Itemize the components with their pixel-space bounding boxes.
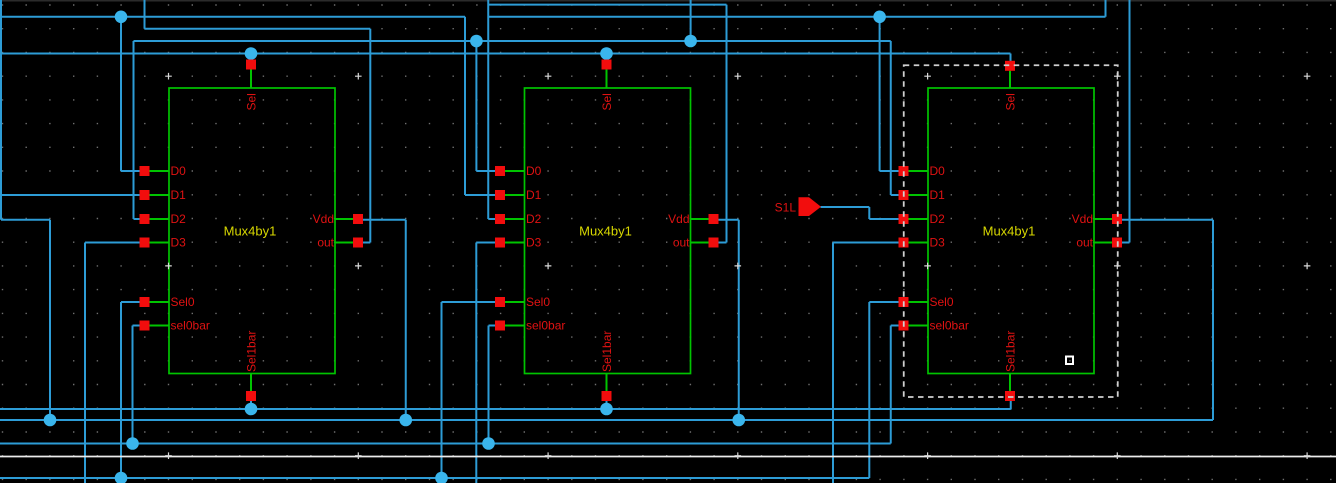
svg-text:Sel: Sel — [600, 93, 614, 110]
svg-text:out: out — [317, 236, 334, 250]
svg-text:D2: D2 — [930, 212, 946, 226]
svg-text:sel0bar: sel0bar — [930, 319, 969, 333]
svg-text:Mux4by1: Mux4by1 — [224, 224, 277, 239]
svg-text:D0: D0 — [526, 164, 542, 178]
svg-text:Sel0: Sel0 — [171, 295, 195, 309]
svg-text:Sel0: Sel0 — [930, 295, 954, 309]
svg-text:D2: D2 — [171, 212, 187, 226]
svg-text:out: out — [673, 236, 690, 250]
svg-text:Mux4by1: Mux4by1 — [579, 224, 632, 239]
svg-text:Sel: Sel — [244, 93, 258, 110]
svg-text:Sel0: Sel0 — [526, 295, 550, 309]
svg-text:D3: D3 — [171, 236, 187, 250]
svg-text:D1: D1 — [526, 188, 542, 202]
svg-text:sel0bar: sel0bar — [171, 319, 210, 333]
svg-text:D2: D2 — [526, 212, 542, 226]
svg-text:Vdd: Vdd — [1072, 212, 1093, 226]
svg-text:Mux4by1: Mux4by1 — [983, 224, 1036, 239]
svg-text:Sel1bar: Sel1bar — [600, 331, 614, 372]
svg-text:sel0bar: sel0bar — [526, 319, 565, 333]
svg-text:out: out — [1076, 236, 1093, 250]
svg-text:D1: D1 — [930, 188, 946, 202]
svg-text:Sel: Sel — [1003, 93, 1017, 110]
svg-text:D3: D3 — [930, 236, 946, 250]
svg-text:Vdd: Vdd — [668, 212, 689, 226]
svg-text:S1L: S1L — [775, 201, 797, 215]
svg-text:D3: D3 — [526, 236, 542, 250]
svg-text:D0: D0 — [930, 164, 946, 178]
svg-text:Sel1bar: Sel1bar — [244, 331, 258, 372]
svg-text:D1: D1 — [171, 188, 187, 202]
svg-text:D0: D0 — [171, 164, 187, 178]
svg-text:Sel1bar: Sel1bar — [1003, 331, 1017, 372]
svg-text:Vdd: Vdd — [313, 212, 334, 226]
